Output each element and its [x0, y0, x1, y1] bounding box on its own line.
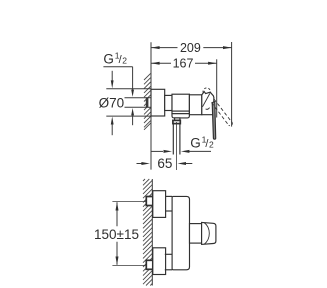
wall face line (front view) — [151, 179, 153, 286]
lever knob (front) — [202, 222, 216, 244]
cone / lever base — [202, 92, 214, 115]
body (front view) — [172, 196, 189, 269]
flange (escutcheon, side view) — [151, 89, 165, 116]
bottom union block — [153, 248, 166, 275]
base plate under body — [172, 111, 189, 114]
body — [172, 94, 189, 111]
svg-text:2: 2 — [122, 56, 127, 66]
65 dimension — [137, 162, 193, 165]
dimension 167 — [151, 62, 217, 65]
top union nut — [146, 197, 153, 206]
svg-text:G: G — [190, 136, 201, 151]
wall stub (pipe in wall, side view) — [146, 98, 151, 108]
svg-text:G: G — [103, 51, 114, 66]
bottom neck lines — [165, 253, 172, 255]
top union block — [153, 191, 166, 218]
outlet pipe — [172, 124, 174, 155]
wall hatching (front view) — [143, 179, 152, 286]
lever neck (front) — [190, 224, 202, 244]
cap section — [189, 95, 201, 115]
dashed circle (raised lever position) — [203, 88, 211, 93]
dimension 209 — [151, 46, 232, 49]
solid lever (vertical) — [212, 102, 216, 140]
G1/2 bottom dimension arrows — [151, 150, 211, 153]
mirrored arrow pointing up at stub bottom line — [131, 108, 134, 115]
neck — [165, 95, 172, 110]
svg-text:209: 209 — [180, 41, 201, 55]
extension line 167 — [216, 59, 218, 117]
svg-text:65: 65 — [157, 156, 172, 171]
svg-text:150±15: 150±15 — [94, 227, 139, 242]
diameter 70 arrows (outside, at x=112.2) — [111, 71, 114, 135]
diameter 70 extension lines (flange top/bottom) — [106, 88, 151, 90]
dashed lever (raised position) — [212, 99, 233, 126]
bottom union nut — [146, 260, 153, 269]
G 1/2 top label leader: underline, elbow down with arrow to stub top — [103, 67, 134, 126]
svg-text:2: 2 — [209, 140, 214, 150]
pipe centerline, also 65 extension — [176, 122, 178, 170]
outlet boss (rounded bottom) — [172, 114, 189, 118]
outlet nut — [173, 120, 180, 123]
outlet stub under boss — [175, 118, 180, 120]
wall hatching (side view) — [144, 73, 151, 129]
extension line 209 — [231, 42, 233, 127]
top neck lines — [166, 195, 173, 197]
150 dim extension lines — [112, 201, 146, 203]
label G1/2 (top inlet) — [103, 50, 127, 66]
wall face line (side view) + shared extension line for 209/167 — [150, 42, 152, 169]
label G1/2 (shower outlet) — [190, 134, 214, 150]
svg-text:167: 167 — [173, 56, 194, 70]
G1/2 stub extension lines — [125, 97, 147, 99]
svg-text:Ø70: Ø70 — [99, 95, 125, 110]
150 dimension line with arrows — [116, 202, 119, 265]
